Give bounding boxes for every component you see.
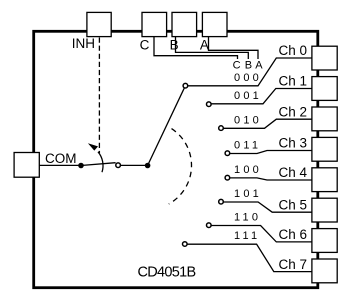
contact Ch 7 (open circle)	[183, 242, 188, 247]
IC outline CD4051B body	[34, 31, 318, 287]
pin Ch 5	[312, 198, 337, 222]
svg-text:CD4051B: CD4051B	[138, 264, 196, 280]
svg-text:011: 011	[234, 140, 261, 152]
svg-text:B: B	[170, 38, 179, 53]
contact Ch 2 (open circle)	[219, 126, 224, 131]
pin B	[172, 12, 197, 36]
svg-text:A: A	[200, 38, 209, 53]
switch wiper	[81, 163, 116, 166]
svg-text:Ch 6: Ch 6	[279, 227, 308, 242]
pin C	[142, 12, 167, 36]
contact Ch 0 (open circle)	[183, 83, 188, 88]
contact Ch 3 (open circle)	[225, 151, 230, 156]
pin Ch 2	[312, 107, 337, 131]
svg-text:Ch 2: Ch 2	[279, 104, 308, 119]
wire: channel 3 line	[230, 151, 312, 154]
svg-text:COM: COM	[45, 151, 77, 166]
wire: A address line	[209, 37, 259, 59]
svg-text:C: C	[140, 38, 150, 53]
svg-text:Ch 4: Ch 4	[279, 165, 308, 180]
wire: channel 6 line	[211, 226, 312, 242]
rotation arrow arc	[98, 152, 103, 172]
wire: channel 2 line	[223, 119, 312, 128]
svg-text:INH: INH	[72, 36, 95, 51]
wire: channel 5 line	[223, 202, 312, 212]
contact Ch 6 (open circle)	[207, 223, 212, 228]
wire: channel 4 line	[230, 178, 312, 180]
wire: C address line	[154, 37, 238, 59]
wire: channel 7 line	[187, 244, 312, 271]
wire: B address line	[176, 37, 249, 59]
switch contact (open circle)	[116, 163, 121, 168]
pin COM	[14, 153, 39, 178]
svg-text:100: 100	[234, 164, 262, 176]
svg-text:001: 001	[234, 90, 262, 102]
svg-text:CBA: CBA	[233, 60, 264, 72]
pin Ch 0	[312, 46, 337, 70]
contact Ch 4 (open circle)	[225, 175, 230, 180]
wire: channel 1 line	[211, 89, 312, 104]
svg-text:111: 111	[234, 230, 260, 242]
contact Ch 5 (open circle)	[219, 199, 224, 204]
pin Ch 3	[312, 137, 337, 161]
svg-text:Ch 7: Ch 7	[279, 257, 308, 272]
wire: channel 0 line	[188, 58, 312, 86]
wire: pivot to Ch0 contact	[148, 86, 186, 166]
svg-text:Ch 1: Ch 1	[279, 74, 308, 89]
pin Ch 4	[312, 168, 337, 192]
node: pivot dot	[145, 163, 151, 169]
pin A	[202, 12, 227, 36]
svg-text:Ch 5: Ch 5	[279, 197, 308, 212]
wiper sweep arc (dashed)	[169, 129, 192, 204]
svg-text:010: 010	[234, 114, 262, 126]
wire: contact to pivot	[121, 164, 148, 166]
pin Ch 7	[312, 259, 337, 283]
pin Ch 6	[312, 229, 337, 253]
wire: COM lead	[39, 164, 81, 166]
svg-text:110: 110	[234, 212, 261, 224]
pin INH	[87, 12, 111, 36]
svg-text:Ch 0: Ch 0	[279, 43, 308, 58]
node: COM junction dot	[78, 163, 84, 169]
contact Ch 1 (open circle)	[207, 102, 212, 107]
pin Ch 1	[312, 77, 337, 101]
wire: INH control line (dashed)	[98, 38, 100, 154]
svg-text:101: 101	[234, 188, 262, 200]
svg-text:000: 000	[234, 72, 262, 84]
svg-text:Ch 3: Ch 3	[279, 136, 308, 151]
rotation arrowhead	[88, 143, 98, 150]
